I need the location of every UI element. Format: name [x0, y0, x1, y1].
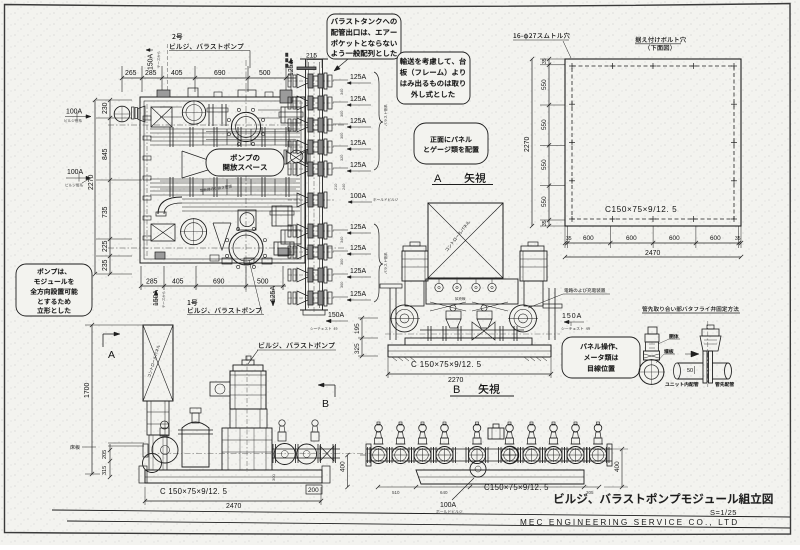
svg-text:A: A: [108, 349, 115, 361]
plan flange cluster right lower: [274, 242, 294, 255]
side base width dimension 2470: [143, 487, 323, 510]
svg-text:2270: 2270: [524, 137, 531, 152]
plan machine outline: [140, 97, 305, 263]
svg-text:400: 400: [614, 461, 621, 472]
bview manifold valve 1: [368, 422, 390, 464]
svg-text:300: 300: [340, 111, 344, 117]
plan left extension line mid: [132, 179, 142, 181]
side pump motor cylinder: [230, 356, 266, 409]
svg-text:550: 550: [541, 79, 548, 90]
plan bottom edge fittings: [155, 248, 289, 261]
svg-text:B: B: [453, 384, 460, 396]
side pump label with leader: [248, 342, 336, 364]
svg-text:550: 550: [541, 159, 548, 170]
svg-text:305: 305: [586, 490, 594, 495]
elevation side frame left: [390, 288, 396, 340]
svg-text:35: 35: [542, 58, 548, 64]
manifold branch valve 125A y252: [288, 244, 371, 260]
svg-text:690: 690: [213, 279, 225, 286]
elevation left height dims 195/325: [354, 316, 378, 358]
elevation motor left: [402, 242, 428, 281]
svg-text:550: 550: [541, 196, 548, 207]
butterfly detail left labels: [656, 334, 680, 363]
svg-text:2270: 2270: [88, 175, 95, 190]
side view direction marker A: [103, 332, 120, 361]
bview motorized valve center: [488, 424, 519, 464]
bview manifold valve 9: [565, 422, 587, 464]
plan 125A bottom branch label: [270, 286, 277, 306]
plan fitting cluster upper right: [279, 107, 303, 123]
floor plate label: [70, 445, 96, 450]
bview manifold pipe: [360, 444, 612, 466]
svg-text:600: 600: [583, 235, 594, 242]
manifold branch valve 125A y169: [288, 161, 371, 177]
manifold bottom 150A outlet label: [303, 310, 348, 330]
bview 100A hold bilge drop: [436, 461, 486, 513]
side elevation height dimension 1700: [84, 323, 143, 476]
svg-text:100A: 100A: [440, 502, 456, 509]
title block separator line upper: [52, 510, 790, 517]
side floor pipe stub: [108, 443, 144, 446]
svg-text:125A: 125A: [350, 268, 366, 275]
plan discharge elbow box upper: [238, 210, 256, 230]
plan piping band upper: [150, 129, 300, 145]
plan centerline horizontal lower: [108, 247, 345, 249]
butterfly detail left figure circle: [638, 359, 665, 385]
svg-text:225: 225: [102, 240, 109, 252]
plan left service pipe column: [143, 104, 151, 258]
plan elbow lower left: [156, 197, 182, 216]
side small globe valve 1: [278, 420, 286, 441]
svg-text:2470: 2470: [226, 503, 241, 510]
bview manifold valve 3: [412, 422, 434, 464]
plan motor pull-out funnel upper: [182, 151, 208, 178]
svg-text:500: 500: [259, 70, 271, 77]
svg-text:C 150×75×9/12. 5: C 150×75×9/12. 5: [160, 487, 228, 496]
svg-text:235: 235: [102, 259, 109, 271]
frame left dimension chain 35/550x4/35: [540, 57, 565, 228]
plan pump no.2 motor circle: [182, 101, 206, 124]
side strainer pot: [178, 408, 213, 467]
svg-text:600: 600: [669, 235, 680, 242]
plan pump no.2 bolt circles: [227, 108, 264, 145]
butterfly detail left figure valve: [644, 327, 660, 360]
svg-text:340: 340: [340, 237, 344, 243]
elevation 150A sea chest label: [561, 313, 589, 330]
frame overall vertical dimension 2270: [524, 57, 534, 228]
svg-text:195: 195: [354, 323, 361, 334]
elevation cone valve left of center: [446, 305, 461, 328]
svg-text:405: 405: [171, 70, 183, 77]
side 400 dimension right: [340, 453, 350, 489]
manifold 100A hold bilge branch: [288, 184, 398, 208]
svg-text:500: 500: [257, 279, 269, 286]
frame overall width dimension 2470: [563, 250, 743, 259]
side small globe valve 2: [311, 420, 319, 441]
plan pump no.2 coupling flanges: [207, 104, 228, 126]
butterfly detail 50 dimension: [687, 366, 695, 374]
manifold 215 dimension: [286, 53, 323, 70]
elevation cone valve 2: [477, 305, 492, 328]
svg-text:125A: 125A: [350, 140, 366, 147]
plan cross valve upper: [151, 107, 172, 127]
svg-text:690: 690: [214, 70, 226, 77]
bview manifold valve 10: [587, 422, 609, 464]
plan piping band lower: [182, 199, 300, 211]
callout panel eye-level note: [562, 337, 640, 378]
svg-text:300: 300: [340, 133, 344, 139]
svg-text:50: 50: [687, 368, 693, 374]
manifold branch valve 125A y275: [288, 267, 371, 283]
callout vertical pump note: [16, 264, 92, 316]
base frame inner dashed rectangle: [572, 66, 734, 219]
plan overall dimension 2270: [88, 98, 97, 276]
plan centerline horizontal upper: [108, 124, 345, 126]
plan pump no.1 casing circle: [229, 231, 263, 265]
butterfly detail right figure valve body: [700, 321, 721, 387]
callout front panel gauges note: [414, 123, 488, 164]
svg-text:265: 265: [125, 70, 137, 77]
plan bowtie valve right upper: [284, 150, 310, 164]
svg-text:215: 215: [306, 53, 317, 60]
svg-text:100A: 100A: [350, 193, 366, 200]
svg-text:600: 600: [710, 235, 721, 242]
butterfly detail right figure wafer plates: [703, 351, 713, 383]
svg-text:315: 315: [102, 466, 108, 475]
svg-text:400: 400: [340, 461, 347, 472]
svg-text:510: 510: [392, 490, 400, 495]
svg-text:C150×75×9/12. 5: C150×75×9/12. 5: [484, 483, 549, 492]
pump no.2 label: [168, 34, 251, 96]
svg-text:405: 405: [172, 279, 184, 286]
svg-text:125A: 125A: [350, 245, 366, 252]
plan pump no.2 casing circle: [231, 112, 260, 141]
elevation width dimension 2270: [386, 358, 553, 384]
svg-text:230: 230: [102, 102, 109, 114]
svg-text:300: 300: [340, 282, 344, 288]
svg-text:1700: 1700: [84, 383, 91, 398]
manifold branch valve 125A y103: [288, 95, 371, 111]
svg-text:C150×75×9/12. 5: C150×75×9/12. 5: [605, 205, 677, 214]
butterfly detail arrow marker: [685, 351, 699, 357]
svg-text:210: 210: [334, 184, 338, 190]
bview manifold valve 7: [521, 422, 543, 464]
plan piping band middle: [150, 179, 300, 195]
elevation control panel box: [428, 203, 503, 278]
svg-text:300: 300: [340, 259, 344, 265]
manifold branch valve 125A y147: [288, 139, 371, 155]
svg-text:300: 300: [271, 474, 276, 481]
side pump stool: [230, 409, 267, 428]
frame bolt hole note 16-d27: [513, 33, 571, 58]
side suction valve flange circle: [152, 421, 178, 463]
svg-text:285: 285: [146, 279, 158, 286]
plan extra pipe lines upper: [160, 107, 296, 189]
elevation side frame right: [549, 288, 555, 340]
svg-text:150A: 150A: [148, 54, 155, 70]
view title B: [450, 384, 514, 396]
plan pipe flanges band upper: [170, 127, 289, 147]
svg-text:600: 600: [626, 235, 637, 242]
svg-text:640: 640: [440, 490, 448, 495]
plan 125A top branch label: [288, 58, 295, 95]
svg-text:735: 735: [102, 206, 109, 218]
base frame outer rectangle: [565, 59, 741, 226]
plan ball valve at left inlet: [114, 106, 145, 122]
side left height dims 315/205: [102, 444, 112, 479]
svg-text:C 150×75×9/12. 5: C 150×75×9/12. 5: [411, 360, 482, 369]
plan 150A suction label no.2: [146, 49, 160, 71]
svg-text:A: A: [434, 173, 442, 185]
svg-text:35: 35: [566, 236, 572, 242]
plan 100A bilge inlet upper label: [65, 109, 91, 123]
elevation side shelf right: [543, 304, 562, 308]
svg-text:150A: 150A: [328, 312, 344, 319]
side view direction marker B: [318, 383, 335, 410]
title block separator line lower: [67, 521, 790, 528]
drawing title text: [555, 493, 772, 504]
svg-text:550: 550: [541, 119, 548, 130]
plan bottom dimension chain 285/405/690/500: [139, 266, 286, 290]
side panel support legs: [147, 401, 169, 470]
plan fitting cluster lower right corner: [281, 230, 301, 244]
svg-text:S=1/25: S=1/25: [710, 508, 737, 517]
bview 400 dimension right: [604, 447, 628, 489]
svg-text:2470: 2470: [645, 250, 660, 257]
elevation gauge panel: [426, 279, 518, 311]
manifold group brace lower ballast system: [374, 224, 387, 302]
bview manifold valve 2: [390, 422, 412, 464]
plan extra vertical bars bands: [203, 129, 275, 195]
svg-text:35: 35: [542, 220, 548, 226]
svg-text:100A: 100A: [67, 169, 83, 176]
svg-text:845: 845: [102, 148, 109, 160]
svg-text:125A: 125A: [350, 162, 366, 169]
elevation base channel: [388, 338, 551, 361]
side 200 dimension box: [306, 485, 322, 494]
frame bottom dimension chain 35/600x4/35: [563, 226, 743, 248]
side discharge piping right: [150, 444, 370, 465]
plan cross valve lower: [151, 224, 175, 241]
plan motor pull-out funnel lower vertical: [213, 223, 231, 250]
svg-text:2270: 2270: [448, 377, 463, 384]
side bowtie valve right: [320, 446, 334, 461]
plan motor removal note upper: [200, 184, 232, 192]
svg-text:125A: 125A: [350, 96, 366, 103]
svg-text:125A: 125A: [350, 224, 366, 231]
svg-text:125A: 125A: [350, 74, 366, 81]
svg-text:125A: 125A: [270, 286, 277, 302]
svg-text:340: 340: [340, 89, 344, 95]
frame alignment cross ticks: [569, 63, 737, 222]
elevation motor right: [520, 242, 547, 281]
svg-text:100A: 100A: [66, 109, 82, 116]
plan left dimension chain 230/845/735/225/235: [96, 98, 132, 276]
svg-text:150A: 150A: [562, 313, 582, 320]
plan centerline vertical: [245, 60, 247, 292]
manifold branch valve 125A y125: [288, 117, 371, 133]
butterfly detail title: [642, 306, 740, 313]
side pump side fitting: [210, 382, 230, 396]
frame mounting bolt hole note: [635, 37, 686, 51]
elevation center pipework: [385, 322, 560, 341]
elevation cable entry note: [528, 288, 610, 308]
elevation pump body left: [390, 281, 424, 332]
plan foot pads bottom: [222, 258, 272, 264]
plan manifold header pipe: [300, 55, 328, 314]
manifold branch valve 125A y298: [288, 290, 371, 306]
side base frame: [139, 466, 330, 483]
bview base channel: [416, 470, 584, 484]
manifold group brace upper ballast system: [374, 72, 387, 170]
side pump casing: [222, 356, 272, 472]
butterfly detail right figure pipe: [674, 363, 732, 379]
svg-text:35: 35: [735, 236, 741, 242]
pump no.1 label: [187, 260, 264, 315]
plan pump no.1 motor circle: [180, 218, 207, 245]
bview manifold valve 6: [499, 422, 521, 464]
bview manifold valve 4: [434, 422, 456, 464]
butterfly detail bottom labels: [665, 382, 734, 387]
pump open space balloon: [206, 149, 284, 176]
svg-text:MEC ENGINEERING SERVICE CO., L: MEC ENGINEERING SERVICE CO., LTD: [520, 518, 739, 527]
manifold small pitch dimensions: [340, 89, 344, 288]
side control panel tall: [143, 325, 173, 401]
plan top dimension chain 265/285/405/690/500: [120, 66, 296, 92]
elevation side shelf left: [380, 284, 402, 288]
callout ballast tank piping note: [327, 14, 401, 71]
svg-text:125A: 125A: [350, 291, 366, 298]
manifold branch valve 125A y81: [288, 73, 371, 89]
svg-text:205: 205: [102, 450, 108, 459]
side suction elbow circle: [143, 444, 162, 473]
plan 150A suction label no.1: [153, 290, 165, 308]
elevation pump body right: [508, 281, 543, 332]
bview manifold valve 5: [466, 422, 488, 464]
svg-text:B: B: [322, 398, 329, 410]
svg-text:200: 200: [308, 487, 319, 494]
svg-text:285: 285: [145, 70, 157, 77]
svg-text:240: 240: [342, 184, 346, 190]
svg-text:320: 320: [340, 155, 344, 161]
plan small fittings top edge: [157, 88, 292, 103]
plan pump no.1 bolt circles: [225, 227, 266, 268]
svg-text:125A: 125A: [350, 118, 366, 125]
plan 100A bilge inlet lower label: [66, 169, 91, 187]
plan flange cluster right middle: [270, 206, 294, 226]
callout transport removable note: [397, 52, 470, 104]
bview manifold valve 8: [543, 422, 565, 464]
plan pipe flanges band middle: [170, 177, 289, 197]
view title A: [432, 173, 493, 185]
bview small dimensions row: [376, 485, 601, 495]
svg-text:325: 325: [354, 343, 361, 354]
manifold branch valve 125A y231: [288, 223, 371, 239]
